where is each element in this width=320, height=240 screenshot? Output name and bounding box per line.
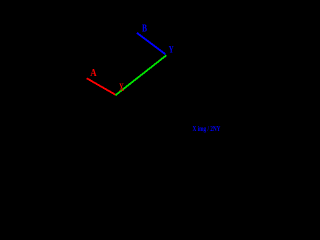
svg-text:Y: Y xyxy=(169,44,174,54)
svg-text:B: B xyxy=(142,22,147,33)
svg-text:X: X xyxy=(119,83,124,95)
wire segment A (red line) xyxy=(87,78,116,95)
wire segment XY (green line) xyxy=(116,55,167,95)
wire segment B (blue line) xyxy=(137,33,166,54)
svg-text:A: A xyxy=(90,68,96,80)
svg-text:X img / 2NY: X img / 2NY xyxy=(193,124,221,133)
